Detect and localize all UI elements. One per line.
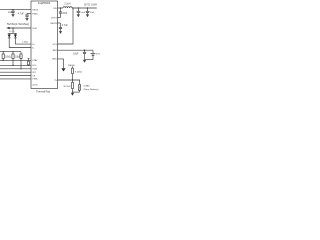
battery BT1 (85, 50, 101, 59)
label D- (13, 31, 16, 33)
U1 left pin labels (32, 10, 38, 87)
wire SYS rail (72, 7, 97, 9)
ground TS network (71, 93, 74, 96)
node R3 INT (20, 68, 21, 69)
svg-text:10uF: 10uF (89, 12, 95, 14)
node SYS corner (72, 7, 73, 8)
capacitor C1 1uF (8, 10, 15, 15)
svg-text:QON: QON (32, 84, 37, 86)
wire SW output (58, 7, 64, 9)
ground under C4 (59, 31, 62, 34)
svg-text:REGN: REGN (50, 23, 57, 25)
wire down to diode bar (8, 28, 17, 33)
node SYS cap1 (78, 7, 79, 8)
svg-text:REGN: REGN (68, 65, 75, 67)
wire SYS feedback (58, 8, 74, 44)
svg-text:TS: TS (54, 80, 57, 82)
capacitor C2 4.7uF (18, 13, 29, 18)
svg-text:1uF: 1uF (8, 12, 13, 14)
svg-text:SW: SW (53, 8, 57, 10)
svg-text:103AT: 103AT (83, 85, 90, 88)
svg-text:PSEL: PSEL (32, 79, 38, 81)
diode D1 (8, 33, 11, 38)
label REGN (68, 65, 75, 67)
inductor L1 2.2uH (63, 4, 72, 8)
diode D2 (14, 33, 17, 38)
svg-text:4.7uF: 4.7uF (18, 14, 24, 16)
label 1.5k (22, 42, 28, 44)
wire TS (58, 79, 81, 81)
label adapter rating (7, 23, 29, 26)
capacitor C7 10uF BAT (73, 50, 86, 59)
node ILIM junction (12, 27, 13, 28)
svg-text:D-: D- (13, 31, 16, 33)
svg-text:(Near Battery): (Near Battery) (83, 88, 98, 91)
wire VBUS input (0, 9, 31, 11)
node SYS cap2 (87, 7, 88, 8)
capacitor C4 4.7uF REGN (58, 23, 69, 31)
thermistor RT1 NTC (78, 80, 99, 92)
capacitor C3 47nF BTST (58, 8, 69, 18)
ground under C1 (11, 14, 14, 17)
svg-text:STAT: STAT (32, 59, 38, 62)
svg-text:10uF: 10uF (80, 12, 86, 14)
node ground junction (72, 91, 73, 92)
U1 right pin labels (50, 8, 57, 82)
wire SCL line (0, 64, 31, 66)
wire STAT line (0, 59, 31, 61)
svg-text:D+: D+ (32, 44, 36, 46)
svg-text:SYS 3.8V: SYS 3.8V (84, 3, 97, 6)
wire ILIM with arrow (6, 27, 31, 29)
node R2 SCL (12, 65, 13, 66)
svg-text:Thermal Pad: Thermal Pad (36, 91, 51, 94)
ground GND pin (61, 68, 65, 71)
svg-text:4.2V: 4.2V (96, 53, 100, 55)
svg-text:SCL: SCL (32, 65, 37, 67)
svg-text:5V/3A(1.5A Max): 5V/3A(1.5A Max) (7, 23, 29, 26)
svg-text:SDA: SDA (32, 68, 37, 71)
svg-text:PMID: PMID (32, 13, 38, 15)
wire GND pin (58, 59, 64, 68)
node rail R1 (3, 51, 4, 52)
wire pullup rail (0, 51, 21, 53)
ground under battery node (83, 60, 86, 63)
svg-text:10kΩ: 10kΩ (5, 57, 11, 59)
wire PMID stub (27, 12, 31, 14)
svg-text:BTST: BTST (51, 17, 57, 19)
svg-text:INT: INT (32, 72, 36, 74)
node R1 SDA (3, 60, 4, 61)
node rail R2 (12, 51, 13, 52)
svg-text:bq25601: bq25601 (38, 1, 51, 5)
svg-text:ILIM: ILIM (32, 28, 36, 30)
resistor R3 10k (20, 52, 22, 69)
wire PSEL line (0, 78, 31, 80)
label D+ (9, 31, 13, 33)
svg-text:5.23kΩ: 5.23kΩ (75, 72, 82, 74)
node R4 (28, 65, 29, 66)
svg-text:30.1kΩ: 30.1kΩ (63, 86, 70, 88)
wire CE line (0, 75, 31, 77)
resistor R4 (28, 59, 30, 66)
svg-text:CE: CE (32, 75, 36, 77)
node TS junction (72, 79, 73, 80)
svg-text:D-: D- (32, 47, 35, 49)
node VBUS junction (12, 9, 13, 10)
ground under C2 (25, 18, 28, 21)
note Thermal Pad (36, 91, 51, 94)
resistor R5 5.23k (72, 66, 83, 80)
op-amp U1 charger IC bq25601 box (31, 1, 58, 89)
capacitor C6 10uF (86, 8, 95, 14)
label SYS 3.8V (84, 3, 97, 6)
wire INT line (0, 71, 31, 73)
ground under C6 (86, 14, 89, 17)
svg-text:10uF: 10uF (73, 54, 79, 56)
capacitor C5 10uF (77, 8, 86, 14)
svg-text:47nF: 47nF (62, 13, 68, 15)
svg-text:2.2uH: 2.2uH (64, 4, 70, 6)
svg-text:GND: GND (52, 59, 57, 61)
wire SDA line (0, 68, 31, 70)
resistor R1 10k (2, 52, 11, 61)
svg-text:VBUS: VBUS (32, 10, 38, 12)
node BAT junction (84, 50, 85, 51)
wire BAT (58, 49, 94, 51)
resistor R2 10k (12, 52, 21, 66)
ground under C5 (77, 14, 80, 17)
svg-text:BAT: BAT (53, 49, 58, 52)
svg-text:1.5kΩ: 1.5kΩ (22, 42, 28, 44)
wire D1 to D+ pin (9, 38, 31, 48)
resistor R6 30.1k (63, 80, 73, 92)
node SW junction (60, 7, 61, 8)
wire NTC bottom (73, 91, 80, 93)
svg-text:4.7uF: 4.7uF (62, 25, 68, 27)
svg-text:SYS: SYS (52, 44, 57, 46)
wire D2 to D- pin (15, 38, 31, 44)
